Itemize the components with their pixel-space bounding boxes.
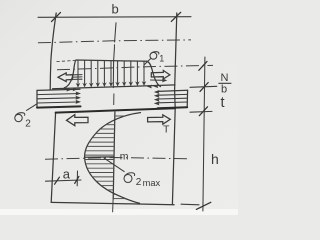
distributed load arrows sigma1 [77,60,79,87]
column top edge [56,108,176,112]
extension line right baseline [190,86,217,87]
svg-text:T: T [163,124,170,136]
load envelope left S-curve [64,60,76,88]
leader G2 [27,104,38,111]
column outline: left edge [51,112,55,202]
paper background [0,0,238,215]
shear band right G2 [154,90,188,108]
hollow arrow lower-left (points left) [67,115,89,126]
tick at column top [199,107,207,116]
motion lines behind upper-left arrow [74,74,83,76]
hatching of shear curve [85,116,126,199]
svg-text:b: b [221,84,227,96]
hollow arrow upper-right (points right) [151,70,170,79]
centerline vertical (dash-dot) [115,23,116,42]
column bottom edge [51,202,174,204]
dimension b line [38,16,191,19]
svg-text:N: N [221,72,229,84]
svg-text:m: m [120,150,129,162]
svg-text:t: t [221,95,225,111]
hollow arrow lower-right T (points right) [148,115,171,124]
tick N/b top [199,61,207,70]
svg-text:max: max [143,178,161,188]
svg-text:b: b [112,2,119,17]
interface arrowheads left [67,88,72,92]
label sigma1 [150,52,157,59]
svg-text:a: a [63,167,71,182]
label sigma2max [124,175,132,183]
max ordinate line [85,156,114,158]
load envelope dashed level left [57,60,76,61]
interface arrowheads right [147,85,152,89]
svg-text:h: h [211,151,219,167]
extension line right / column right edge [172,13,176,204]
leader sigma2max [104,158,124,172]
svg-text:2: 2 [25,119,31,130]
centerline horizontal upper (dash-dot y~42) [38,40,191,43]
centerline horizontal load level (dash-dot y~66-69) [57,65,213,69]
white strip at photo bottom [0,209,238,215]
load envelope top [76,60,147,61]
center shaft solid through load [113,47,114,88]
centerline horizontal mid-height m-line (dash-dot y~158) [45,158,189,160]
extension line left [50,13,56,90]
tick right of b [171,12,180,21]
dimension a [46,180,82,181]
solid splitting arrow right [151,79,164,81]
svg-text:1: 1 [159,54,164,64]
svg-text:2: 2 [136,177,142,188]
shear curve chord [113,112,115,199]
tick left of b [52,12,61,21]
extension line right bottom [181,203,199,206]
leader sigma1 [145,59,151,65]
right dimension line [203,57,205,211]
extension line right column top [190,110,212,113]
shear stress curve [85,113,141,204]
tick at baseline level [200,83,208,92]
load envelope right S-curve [147,61,161,86]
tick bottom h [196,202,211,209]
hollow arrow upper-left (points left) [58,73,73,82]
label G2 [15,114,22,121]
shear band left G2 [37,89,81,107]
load baseline [53,85,175,89]
